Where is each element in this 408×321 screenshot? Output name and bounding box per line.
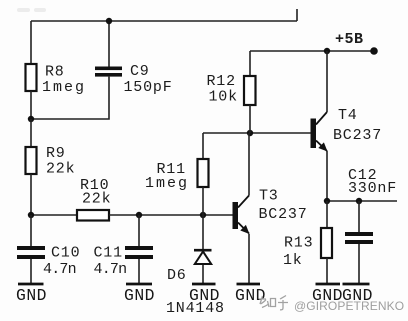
svg-text:GND: GND: [124, 286, 155, 305]
ground R13: [312, 284, 343, 305]
wire T4 emitter down: [326, 151, 328, 201]
wire D6 top: [202, 215, 204, 249]
wire T3 collector up: [248, 133, 250, 196]
wire C9 top: [108, 21, 110, 67]
capacitor C12: [345, 232, 373, 244]
svg-text:@GIROPETRENKO: @GIROPETRENKO: [294, 299, 404, 313]
resistor R11: [198, 159, 209, 187]
resistor R8: [26, 64, 37, 91]
wire C11 top: [138, 215, 140, 246]
transistor T4: [311, 112, 328, 152]
junction R13 tap: [324, 198, 330, 204]
wire R8 bottom: [30, 91, 32, 119]
node +5V terminal dot: [370, 47, 378, 55]
wire C10 bottom: [30, 259, 32, 283]
svg-text:150pF: 150pF: [124, 79, 173, 96]
wire C9 bottom to node: [31, 77, 109, 119]
ground D6: [189, 284, 220, 305]
svg-text:R12: R12: [207, 73, 236, 90]
capacitor C9: [95, 67, 122, 77]
resistor R9: [26, 147, 37, 174]
junction T4 collector on +5 rail: [324, 48, 330, 54]
wire R9 top: [30, 119, 32, 147]
wire mid rail R11 to T4 base: [203, 132, 311, 134]
wire R13 top: [326, 201, 328, 228]
wire R12 bottom: [249, 105, 251, 133]
svg-text:10k: 10k: [209, 89, 238, 106]
resistor R12: [244, 76, 256, 105]
svg-text:T4: T4: [338, 107, 358, 124]
svg-text:GND: GND: [189, 286, 220, 305]
wire T3 emitter down: [248, 234, 250, 283]
ground C11: [124, 284, 155, 305]
capacitor C10: [17, 246, 45, 259]
svg-text:T3: T3: [259, 188, 279, 205]
wire C12 bottom: [358, 244, 360, 283]
svg-text:R8: R8: [45, 64, 65, 81]
wire R13 bottom: [326, 258, 328, 283]
wire D6 bottom: [202, 265, 204, 283]
svg-text:C10: C10: [51, 245, 80, 262]
wire R11 top from mid rail: [202, 133, 204, 159]
ground C12: [342, 284, 373, 305]
svg-text:22k: 22k: [46, 161, 75, 178]
wire stub to cropped top edge: [296, 9, 298, 21]
wire emitter output rail: [327, 200, 397, 202]
svg-text:+5В: +5В: [335, 31, 364, 48]
wire T4 collector up to +5 rail: [326, 51, 328, 112]
junction C9 top rail: [106, 18, 112, 24]
junction node R8/R9/C9: [28, 116, 34, 122]
svg-text:D6: D6: [167, 267, 187, 284]
junction node C11 tap: [136, 212, 142, 218]
faint cropped text artifact top-left: [17, 8, 46, 12]
wire C12 top: [358, 201, 360, 232]
watermark zhihu glyphs: [259, 296, 288, 310]
svg-text:1meg: 1meg: [42, 79, 86, 96]
svg-text:4.7n: 4.7n: [43, 261, 76, 278]
ground T3 emitter: [235, 284, 266, 305]
junction node R12/T3 collector: [247, 130, 253, 136]
svg-text:GND: GND: [16, 286, 47, 305]
svg-text:4.7n: 4.7n: [94, 261, 127, 278]
wire bottom rail right to T3 base: [109, 214, 233, 216]
svg-text:22k: 22k: [82, 191, 111, 208]
junction C12 tap: [356, 198, 362, 204]
svg-text:R13: R13: [284, 235, 313, 252]
wire +5V power rail: [250, 50, 374, 52]
junction node R9/C10/rail: [28, 212, 34, 218]
svg-text:GND: GND: [235, 286, 266, 305]
diode D6: [194, 250, 212, 264]
svg-text:BC237: BC237: [259, 206, 308, 223]
svg-text:C9: C9: [130, 63, 150, 80]
wire R11 bottom: [202, 187, 204, 215]
capacitor C11: [125, 246, 153, 259]
resistor R10: [77, 210, 109, 221]
svg-text:330nF: 330nF: [348, 180, 397, 197]
svg-text:1k: 1k: [283, 252, 303, 269]
resistor R13: [321, 228, 332, 258]
wire C10 top: [30, 215, 32, 246]
wire R8 top: [30, 21, 32, 64]
wire top rail: [31, 20, 297, 22]
wire C11 bottom: [138, 259, 140, 283]
svg-text:1meg: 1meg: [145, 175, 189, 192]
wire R12 top from +5 rail: [249, 51, 251, 76]
svg-text:C11: C11: [94, 245, 123, 262]
wire bottom rail left: [31, 214, 77, 216]
transistor T3: [233, 196, 250, 235]
junction node R11/D6 tap: [200, 212, 206, 218]
svg-text:R9: R9: [46, 145, 66, 162]
wire R9 bottom: [30, 174, 32, 215]
ground C10: [16, 284, 47, 305]
svg-text:BC237: BC237: [333, 127, 382, 144]
